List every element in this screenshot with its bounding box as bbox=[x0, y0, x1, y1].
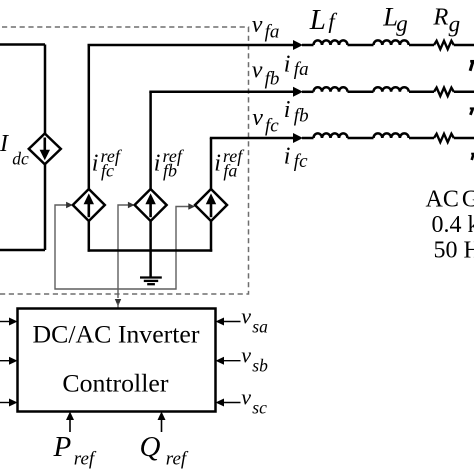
svg-text:i: i bbox=[214, 151, 221, 177]
wire: phase b L_g to R_g bbox=[409, 91, 434, 94]
svg-text:g: g bbox=[396, 11, 408, 36]
wire: phase c L_f to L_g bbox=[348, 137, 374, 140]
svg-text:Controller: Controller bbox=[62, 369, 168, 398]
arrowhead on wire v_fb bbox=[293, 87, 303, 97]
dashed boundary (inverter block) bbox=[0, 27, 249, 294]
label i_fc bbox=[284, 143, 308, 172]
input arrow v_sa into controller bbox=[216, 318, 241, 326]
resistor R_g (phase a) bbox=[434, 41, 454, 49]
controlled current source i_fb^ref (diamond, arrow up) bbox=[135, 189, 167, 221]
arrowhead on wire v_fa bbox=[293, 40, 303, 50]
wire: source a bottom stub bbox=[88, 221, 91, 252]
wire: source c bottom stub bbox=[210, 221, 213, 252]
svg-text:fc: fc bbox=[294, 151, 308, 172]
wire: phase b L_f to L_g bbox=[348, 91, 374, 94]
svg-text:g: g bbox=[449, 11, 461, 36]
label Q_ref bbox=[140, 431, 189, 470]
wire v_fb (phase b output) bbox=[149, 91, 294, 94]
wire: phase-b riser (source to v_fb) bbox=[149, 92, 152, 190]
controller box: DC/AC Inverter Controller bbox=[18, 309, 216, 412]
controlled current source i_fa^ref (diamond, arrow up) bbox=[195, 189, 227, 221]
wire v_fc (phase c output) bbox=[210, 137, 294, 140]
label fragment (cut) phase a grid current bbox=[470, 61, 474, 71]
input arrow (left, middle) into controller bbox=[0, 357, 18, 365]
label v_fc bbox=[252, 105, 279, 136]
wire: phase c arrow to L_f bbox=[302, 137, 314, 140]
wire: phase-a riser (source to v_fa) bbox=[88, 45, 91, 190]
label L_f bbox=[309, 4, 338, 36]
wire: I_dc branch upper stub bbox=[44, 45, 47, 135]
svg-text:L: L bbox=[309, 4, 326, 36]
svg-text:v: v bbox=[241, 304, 251, 329]
svg-text:P: P bbox=[53, 431, 72, 463]
inductor L_f (phase a) bbox=[314, 40, 348, 45]
svg-text:sa: sa bbox=[252, 316, 268, 336]
label fragment (cut) phase b grid current bbox=[470, 109, 474, 115]
svg-text:fb: fb bbox=[294, 106, 309, 127]
wire: phase a to grid (right edge) bbox=[454, 44, 474, 47]
svg-text:i: i bbox=[154, 151, 161, 177]
svg-text:v: v bbox=[241, 343, 251, 368]
label L_g bbox=[382, 1, 408, 35]
inductor L_g (phase c) bbox=[374, 133, 409, 138]
input arrow (left, top) into controller bbox=[0, 318, 18, 326]
svg-text:dc: dc bbox=[12, 149, 29, 169]
label v_sb bbox=[241, 343, 268, 376]
wire: phase a L_f to L_g bbox=[348, 44, 374, 47]
svg-text:0.4 kV: 0.4 kV bbox=[432, 212, 474, 238]
feedback wire to source i_fc^ref (gray) bbox=[55, 202, 189, 289]
ground bbox=[140, 278, 162, 285]
svg-text:i: i bbox=[284, 51, 291, 77]
wire: DC bus bottom (from left edge, cut off) bbox=[0, 249, 45, 252]
svg-text:fb: fb bbox=[265, 69, 280, 90]
svg-text:sc: sc bbox=[252, 397, 267, 417]
wire: ground stem bbox=[149, 251, 152, 278]
wire: phase c L_g to R_g bbox=[409, 137, 434, 140]
wire: phase b arrow to L_f bbox=[302, 91, 314, 94]
svg-text:ref: ref bbox=[166, 449, 189, 470]
arrowhead on wire v_fc bbox=[293, 133, 303, 143]
svg-text:i: i bbox=[284, 143, 291, 169]
wire v_fa (phase a output) bbox=[88, 44, 295, 47]
label R_g bbox=[432, 4, 460, 37]
svg-text:DC/AC Inverter: DC/AC Inverter bbox=[33, 319, 200, 348]
inductor L_f (phase c) bbox=[314, 133, 348, 138]
svg-text:fc: fc bbox=[265, 116, 279, 137]
svg-text:i: i bbox=[92, 151, 99, 177]
arrowhead into source i_fa^ref (gray) bbox=[188, 203, 195, 209]
label v_sc bbox=[241, 385, 267, 418]
inductor L_g (phase a) bbox=[374, 40, 409, 45]
input arrow v_sb into controller bbox=[216, 357, 241, 365]
label i_fa bbox=[284, 51, 309, 80]
wire: common bottom bus bbox=[88, 249, 213, 252]
controlled current source i_fc^ref (diamond, arrow up) bbox=[73, 189, 105, 221]
wire: phase a L_g to R_g bbox=[409, 44, 434, 47]
wire: phase b to grid (right edge) bbox=[454, 91, 474, 94]
svg-text:fa: fa bbox=[265, 21, 280, 42]
label v_fb bbox=[252, 58, 280, 90]
svg-text:Q: Q bbox=[140, 431, 161, 463]
resistor R_g (phase b) bbox=[434, 88, 454, 96]
label i_fa^ref bbox=[214, 146, 245, 180]
inductor L_g (phase b) bbox=[374, 87, 409, 92]
label v_fa bbox=[252, 12, 280, 43]
svg-text:sb: sb bbox=[252, 356, 268, 376]
input arrow P_ref into controller (bottom) bbox=[66, 412, 74, 433]
svg-text:v: v bbox=[241, 385, 251, 410]
label i_fb bbox=[284, 97, 309, 126]
label P_ref bbox=[53, 431, 97, 470]
input arrow v_sc into controller bbox=[216, 399, 241, 407]
svg-text:50 Hz: 50 Hz bbox=[434, 238, 474, 264]
svg-text:fa: fa bbox=[223, 161, 237, 181]
feedback wire to source i_fb^ref and controller (gray) bbox=[115, 202, 135, 308]
svg-text:fc: fc bbox=[101, 161, 114, 181]
current source I_dc (diamond, arrow down) bbox=[29, 134, 61, 165]
input arrow Q_ref into controller (bottom) bbox=[158, 412, 166, 433]
svg-text:R: R bbox=[432, 4, 448, 31]
label I_dc bbox=[0, 131, 29, 169]
svg-text:ref: ref bbox=[74, 449, 97, 470]
label v_sa bbox=[241, 304, 268, 337]
wire: phase-c riser (source to v_fc) bbox=[210, 138, 213, 190]
wire: source b bottom stub bbox=[149, 221, 152, 252]
label i_fc^ref bbox=[92, 146, 123, 180]
input arrow (left, bottom) into controller bbox=[0, 399, 18, 407]
svg-text:AC Grid: AC Grid bbox=[426, 187, 474, 213]
inductor L_f (phase b) bbox=[314, 87, 348, 92]
svg-text:fb: fb bbox=[163, 161, 177, 181]
label fragment (cut) phase c grid current bbox=[471, 154, 474, 160]
svg-text:v: v bbox=[252, 105, 263, 131]
svg-text:v: v bbox=[252, 12, 263, 38]
resistor R_g (phase c) bbox=[434, 134, 454, 142]
svg-text:v: v bbox=[252, 58, 263, 84]
svg-text:fa: fa bbox=[294, 59, 309, 80]
wire: I_dc branch lower stub bbox=[44, 164, 47, 251]
wire: phase a arrow to L_f bbox=[302, 44, 314, 47]
wire: DC bus top (from left edge, cut off) bbox=[0, 43, 45, 46]
label i_fb^ref bbox=[154, 146, 185, 180]
wire: phase c to grid (right edge) bbox=[454, 137, 474, 140]
svg-text:i: i bbox=[284, 97, 291, 123]
svg-text:I: I bbox=[0, 131, 9, 157]
